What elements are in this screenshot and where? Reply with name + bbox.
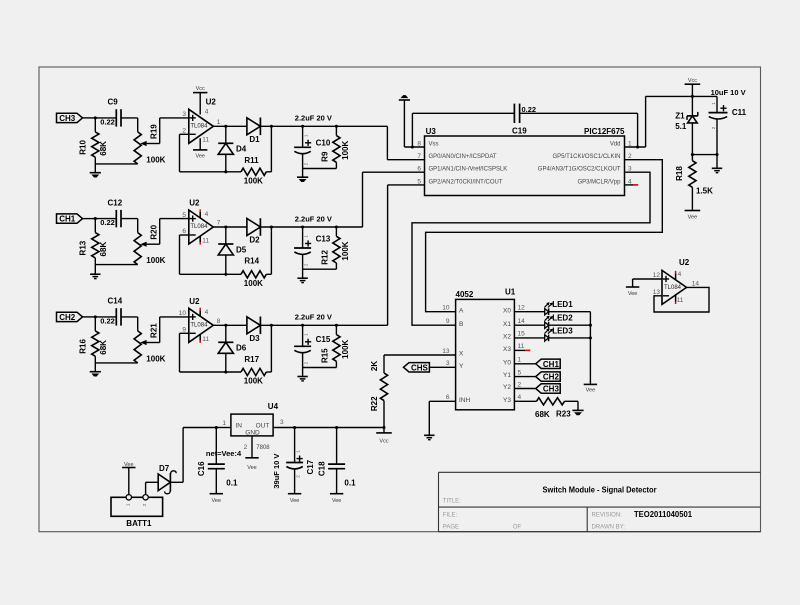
wire [225,154,227,172]
wire [213,324,247,326]
svg-text:9: 9 [182,326,186,333]
capacitor C17 39uF [272,428,315,494]
wire [121,317,138,331]
node junction [715,153,718,156]
wire [514,363,535,365]
capacitor C10 2.2uF [294,126,331,168]
svg-text:GP5/T1CKI/OSC1/CLKIN: GP5/T1CKI/OSC1/CLKIN [552,154,620,160]
node junction [270,125,273,128]
wire [520,113,638,147]
svg-text:C16: C16 [197,461,206,476]
svg-text:Vee: Vee [212,498,221,504]
svg-text:8: 8 [217,318,221,325]
svg-text:CH3: CH3 [59,114,76,123]
ground [297,169,308,182]
svg-text:PIC12F675: PIC12F675 [584,127,625,136]
svg-text:13: 13 [442,348,450,355]
resistor R23 68K [535,398,571,419]
svg-text:2: 2 [182,127,186,134]
svg-text:TL084: TL084 [190,124,208,130]
capacitor C12 [100,198,123,227]
wire [388,185,425,325]
node junction [589,324,592,327]
svg-text:Vdd: Vdd [610,142,621,148]
svg-text:5.1: 5.1 [675,122,687,131]
svg-text:IN: IN [236,422,243,429]
svg-text:R12: R12 [320,250,329,265]
wire [692,95,717,97]
svg-text:R18: R18 [675,166,684,181]
svg-text:100K: 100K [146,155,165,164]
svg-text:R20: R20 [149,224,158,239]
svg-text:68K: 68K [535,410,550,419]
wire [404,146,424,148]
capacitor C15 2.2uF [294,325,331,367]
svg-text:7: 7 [417,153,421,160]
svg-text:7: 7 [217,220,221,227]
node junction [94,116,97,119]
wire [95,163,137,165]
node junction [94,217,97,220]
svg-text:R17: R17 [244,355,259,364]
svg-text:3: 3 [182,111,186,118]
potentiometer R21 100K [134,323,166,364]
svg-text:Vee: Vee [628,291,637,297]
svg-text:D2: D2 [249,236,260,245]
svg-text:OF: OF [513,525,522,531]
diode D1 [247,118,261,144]
svg-text:10: 10 [179,310,187,317]
op-amp U2 [182,199,220,245]
power Vee [210,494,223,504]
connector CH2 [536,372,561,382]
svg-text:C9: C9 [108,98,119,107]
node junction [301,125,304,128]
wire [514,388,535,390]
svg-text:C18: C18 [317,461,326,476]
resistor R15 100K [320,325,350,367]
svg-text:68K: 68K [99,141,108,156]
connector CH1 [57,214,83,224]
no-connect mark [525,349,530,351]
svg-text:3: 3 [280,419,284,426]
wire [213,125,247,127]
op-amp U2 [179,297,221,343]
power Vee [245,458,258,471]
LED LED2 [545,314,574,329]
wire [412,172,650,325]
svg-text:11: 11 [202,238,209,245]
connector CH3 [57,113,83,123]
svg-text:4: 4 [678,271,682,278]
wire [412,113,514,147]
svg-text:REVISION:: REVISION: [592,513,623,519]
power Vee [122,462,135,495]
wire [266,325,271,372]
wire [514,400,536,402]
svg-text:6: 6 [446,394,450,401]
svg-text:R21: R21 [149,323,158,338]
wire [160,118,189,144]
svg-text:100K: 100K [341,340,350,359]
svg-text:13: 13 [653,289,661,296]
svg-text:X2: X2 [503,334,511,341]
capacitor C14 [100,297,123,326]
diode D7 [158,464,176,494]
resistor R14 [241,257,266,288]
svg-text:CH3: CH3 [543,385,560,394]
wire [180,235,242,274]
svg-text:Z1: Z1 [675,111,685,120]
node junction [224,225,227,228]
ground [90,265,100,279]
node junction [691,95,694,98]
wire [146,482,159,494]
svg-text:TITLE:: TITLE: [443,499,461,505]
capacitor C16 0.1 [197,428,238,494]
svg-text:FILE:: FILE: [443,513,458,519]
svg-text:Vss: Vss [429,142,439,148]
zener Z1 5.1 [675,111,698,132]
wire [160,317,189,343]
svg-text:4: 4 [518,394,522,401]
wire [95,362,137,364]
svg-text:Y1: Y1 [503,372,511,379]
svg-text:U3: U3 [426,127,437,136]
diode D2 [247,218,261,244]
wire [225,227,227,244]
svg-text:0.22: 0.22 [100,218,115,227]
svg-text:Y0: Y0 [503,359,511,366]
wire [180,134,242,172]
wire [387,126,424,159]
svg-text:2.2uF 20 V: 2.2uF 20 V [295,214,332,223]
svg-text:U1: U1 [505,287,516,296]
svg-text:Vee: Vee [586,388,595,394]
capacitor C11 10uF [709,88,747,154]
regulator U4 7808 [222,402,284,451]
svg-text:9: 9 [446,318,450,325]
svg-text:68K: 68K [99,242,108,257]
svg-text:CH1: CH1 [543,360,560,369]
resistor R12 100K [320,227,350,269]
svg-text:X0: X0 [503,307,511,314]
svg-text:TL084: TL084 [190,224,208,230]
svg-text:10uF 10 V: 10uF 10 V [711,88,746,97]
svg-text:X3: X3 [503,346,511,353]
svg-text:C17: C17 [306,459,315,474]
svg-text:100K: 100K [244,176,263,185]
svg-text:2.2uF 20 V: 2.2uF 20 V [295,313,332,322]
svg-text:0.1: 0.1 [226,479,238,488]
diode D5 [218,244,247,255]
power Vcc [376,433,392,445]
svg-text:100K: 100K [341,141,350,160]
svg-text:Vcc: Vcc [688,78,697,84]
svg-text:10: 10 [442,305,450,312]
svg-text:U2: U2 [189,297,200,306]
svg-text:6: 6 [182,228,186,235]
svg-text:OUT: OUT [256,422,270,429]
node junction [94,315,97,318]
svg-text:TEO2011040501: TEO2011040501 [634,509,692,519]
wire [514,376,535,378]
svg-text:R22: R22 [370,396,379,411]
svg-text:6: 6 [417,166,421,173]
wire [121,118,138,132]
ground [90,164,101,177]
svg-text:1.5K: 1.5K [696,187,713,196]
wire [363,172,425,227]
svg-text:15: 15 [518,331,526,338]
svg-text:100K: 100K [244,279,263,288]
svg-text:Switch Module - Signal Detecto: Switch Module - Signal Detector [543,485,658,495]
wire [691,123,693,155]
diode D6 [218,342,247,353]
svg-text:14: 14 [692,281,700,288]
svg-text:100K: 100K [146,354,165,363]
ground [399,96,410,147]
value label [295,114,332,123]
resistor R9 100K [320,126,350,168]
LED LED1 [545,300,574,315]
svg-text:U4: U4 [268,402,279,411]
svg-text:INH: INH [459,397,471,404]
node junction [335,324,338,327]
svg-text:7808: 7808 [256,445,270,451]
wire [654,287,709,312]
wire [549,324,591,326]
connector CHS [404,363,430,373]
wire [633,279,662,287]
svg-text:12: 12 [518,305,526,312]
ground [90,363,101,376]
wire [303,168,337,170]
resistor R18 1.5K [675,155,713,211]
svg-text:CH2: CH2 [59,313,76,322]
capacitor C18 0.1 [317,428,356,494]
wire [514,324,544,326]
wire [251,436,253,458]
node junction [636,145,639,148]
wire [514,311,544,313]
svg-text:100K: 100K [341,241,350,260]
wire [514,349,525,351]
node junction [301,225,304,228]
node junction [224,324,227,327]
resistor R22 2K [370,361,388,433]
resistor R11 [241,156,266,186]
svg-text:TL084: TL084 [190,323,208,329]
svg-text:12: 12 [653,272,661,279]
resistor R10 [78,118,108,164]
wire [565,401,579,410]
svg-text:4: 4 [205,309,209,316]
svg-text:11: 11 [202,336,209,343]
svg-text:GP4/AN3/T1G/OSC2/CLKOUT: GP4/AN3/T1G/OSC2/CLKOUT [538,167,621,173]
svg-text:14: 14 [518,318,526,325]
power Vcc [685,78,701,96]
battery BATT1 [111,495,163,529]
svg-text:C14: C14 [108,297,123,306]
net label [206,449,242,458]
svg-text:U2: U2 [206,97,217,106]
svg-text:R14: R14 [244,257,259,266]
svg-text:100K: 100K [244,377,263,386]
wire [303,367,337,369]
svg-text:GP0/AN0/CIN+/ICSPDAT: GP0/AN0/CIN+/ICSPDAT [429,154,497,160]
svg-text:100K: 100K [146,256,165,265]
wire [625,184,634,186]
svg-text:GP3/MCLR/Vpp: GP3/MCLR/Vpp [577,179,621,185]
svg-text:C15: C15 [316,335,331,344]
value label [295,313,332,322]
svg-text:net=Vee:4: net=Vee:4 [206,449,242,458]
node junction [335,125,338,128]
wire [180,333,242,372]
node junction [270,324,273,327]
wire [549,337,591,339]
wire [625,96,693,147]
svg-text:X: X [459,351,464,358]
svg-text:D1: D1 [249,135,260,144]
svg-text:2: 2 [244,444,248,451]
resistor R16 [78,317,108,363]
svg-text:B: B [459,321,463,328]
wire [303,268,337,270]
connector CH2 [57,312,83,322]
node junction [224,370,227,373]
svg-text:4: 4 [205,108,209,115]
diode D3 [247,317,261,343]
svg-text:PAGE: PAGE [443,525,459,531]
node junction [691,153,694,156]
svg-text:2: 2 [518,381,522,388]
svg-text:U2: U2 [679,258,690,267]
op-amp U2 [182,86,220,160]
svg-text:C10: C10 [316,139,331,148]
ground [424,435,434,439]
ground [297,368,307,381]
wire [549,311,591,313]
ground [297,269,307,282]
svg-text:5: 5 [182,212,186,219]
wire [183,428,216,483]
svg-text:11: 11 [202,136,209,143]
wire [213,226,247,228]
svg-text:GND: GND [245,429,260,436]
svg-text:C13: C13 [316,235,331,244]
svg-text:1: 1 [518,357,522,364]
svg-text:X1: X1 [503,321,511,328]
potentiometer R19 100K [134,124,166,165]
title block [439,472,761,531]
wire [216,427,231,429]
op-amp U2 spare [653,258,700,304]
power Vee [288,494,301,504]
svg-text:DRAWN BY:: DRAWN BY: [592,525,626,531]
svg-text:R11: R11 [244,156,259,165]
IC U1 4052 [442,287,525,409]
wire [160,219,189,245]
svg-text:LED1: LED1 [552,300,573,309]
svg-text:5: 5 [417,178,421,185]
svg-text:Vee: Vee [290,498,299,504]
no-connect mark [633,184,638,186]
svg-text:1: 1 [217,119,221,126]
wire [589,312,591,385]
ground [712,155,722,173]
svg-text:D6: D6 [236,344,247,353]
power Vee [330,494,343,504]
power Vee [685,211,701,221]
svg-text:4: 4 [205,211,209,218]
svg-text:BATT1: BATT1 [126,519,152,528]
wire [260,125,387,127]
node junction [335,225,338,228]
svg-text:1: 1 [222,420,226,427]
capacitor C9 [100,98,121,127]
svg-text:5: 5 [518,369,522,376]
svg-text:0.1: 0.1 [344,479,356,488]
svg-text:D5: D5 [236,245,247,254]
wire [95,316,116,318]
value label [295,214,332,223]
svg-text:11: 11 [518,343,525,350]
node junction [293,426,296,429]
svg-text:39uF 10 V: 39uF 10 V [272,454,281,489]
node junction [411,145,414,148]
wire [170,481,183,483]
svg-text:CHS: CHS [411,363,429,372]
svg-text:GP1/AN1/CIN-/Vref/ICSPSLK: GP1/AN1/CIN-/Vref/ICSPSLK [429,167,508,173]
ground [572,410,583,414]
svg-text:R10: R10 [78,140,87,155]
node junction [589,336,592,339]
svg-text:CH2: CH2 [543,373,560,382]
svg-text:C19: C19 [512,126,527,135]
wire [95,117,116,119]
svg-text:68K: 68K [99,340,108,355]
node junction [224,273,227,276]
svg-text:Y3: Y3 [503,397,511,404]
svg-text:R13: R13 [78,240,87,255]
svg-text:0.22: 0.22 [100,118,115,127]
wire [225,126,227,143]
wire [266,126,271,172]
wire [121,219,138,233]
svg-text:U2: U2 [189,199,200,208]
wire [225,325,227,342]
svg-text:2.2uF 20 V: 2.2uF 20 V [295,114,332,123]
node junction [270,225,273,228]
IC U3 PIC12F675 [417,127,632,196]
svg-text:4052: 4052 [456,290,474,299]
svg-text:Vcc: Vcc [196,86,205,92]
svg-text:2K: 2K [370,361,379,371]
node junction [335,426,338,429]
svg-text:LED3: LED3 [552,326,573,335]
wire [514,337,544,339]
node junction [301,324,304,327]
node junction [224,170,227,173]
wire [426,160,663,312]
svg-text:D3: D3 [249,334,260,343]
svg-text:0.22: 0.22 [100,317,115,326]
svg-text:Vee: Vee [195,154,204,160]
svg-text:Vcc: Vcc [379,439,388,445]
capacitor C19 0.22 [512,104,536,136]
